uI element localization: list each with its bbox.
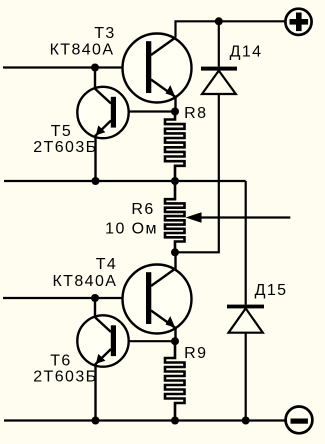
plus terminal bbox=[285, 9, 311, 35]
wire bottom rail to minus terminal bbox=[4, 419, 286, 421]
svg-text:2Т603Б: 2Т603Б bbox=[33, 139, 97, 156]
junction node mid rail / T5 emitter bbox=[92, 177, 100, 185]
wire T4 base from left edge bbox=[3, 297, 146, 299]
minus terminal bbox=[286, 407, 313, 434]
svg-text:R9: R9 bbox=[184, 345, 207, 362]
junction node top rail / D14 bbox=[215, 17, 223, 25]
resistor R8 bbox=[165, 112, 185, 182]
wire D15 branch vertical bbox=[245, 181, 247, 421]
svg-text:Т6: Т6 bbox=[50, 353, 71, 370]
svg-text:10 Ом: 10 Ом bbox=[105, 221, 158, 238]
junction node R6 / T4 collector / D14 return bbox=[171, 248, 179, 256]
junction node T3 base / T5 collector bbox=[91, 64, 99, 72]
diode D15 bbox=[227, 305, 264, 333]
svg-text:Д15: Д15 bbox=[255, 282, 288, 299]
svg-text:2Т603Б: 2Т603Б bbox=[33, 368, 97, 385]
junction node bottom rail / T6 emitter bbox=[92, 417, 100, 425]
wire T5 base to node bbox=[116, 110, 175, 112]
junction node bottom rail / D15 bbox=[242, 417, 250, 425]
junction node mid rail / R8 / R6 bbox=[171, 177, 179, 185]
svg-text:КТ840А: КТ840А bbox=[50, 42, 115, 59]
svg-text:R6: R6 bbox=[131, 201, 154, 218]
junction node T4 emitter / T6 base / R9 bbox=[171, 337, 179, 345]
junction node T4 base / T6 collector bbox=[91, 294, 99, 302]
wire D14 branch vertical bbox=[175, 21, 219, 252]
resistor R9 bbox=[165, 341, 185, 420]
wiper arrowhead bbox=[186, 212, 202, 223]
svg-text:Т3: Т3 bbox=[94, 25, 115, 42]
transistor T6 bbox=[77, 298, 128, 421]
svg-text:R8: R8 bbox=[184, 105, 207, 122]
wire T3 base from left edge bbox=[3, 66, 146, 68]
svg-text:Т4: Т4 bbox=[96, 256, 117, 273]
transistor T5 bbox=[77, 68, 128, 182]
svg-text:Д14: Д14 bbox=[230, 44, 263, 61]
wire R6 wiper line bbox=[196, 216, 290, 218]
svg-text:КТ840А: КТ840А bbox=[52, 273, 117, 290]
resistor R6 (with wiper arrow) bbox=[165, 181, 185, 252]
junction node T3 emitter / T5 base / R8 bbox=[171, 108, 179, 116]
diode D14 bbox=[201, 67, 237, 94]
wire mid rail from left edge to corner bbox=[4, 180, 246, 182]
wire T6 base to node bbox=[116, 340, 175, 342]
svg-text:Т5: Т5 bbox=[51, 123, 72, 140]
transistor T4 bbox=[123, 252, 192, 341]
transistor T3 bbox=[123, 34, 192, 112]
junction node bottom rail / R9 bbox=[171, 417, 179, 425]
wire top rail to plus terminal bbox=[176, 21, 286, 37]
